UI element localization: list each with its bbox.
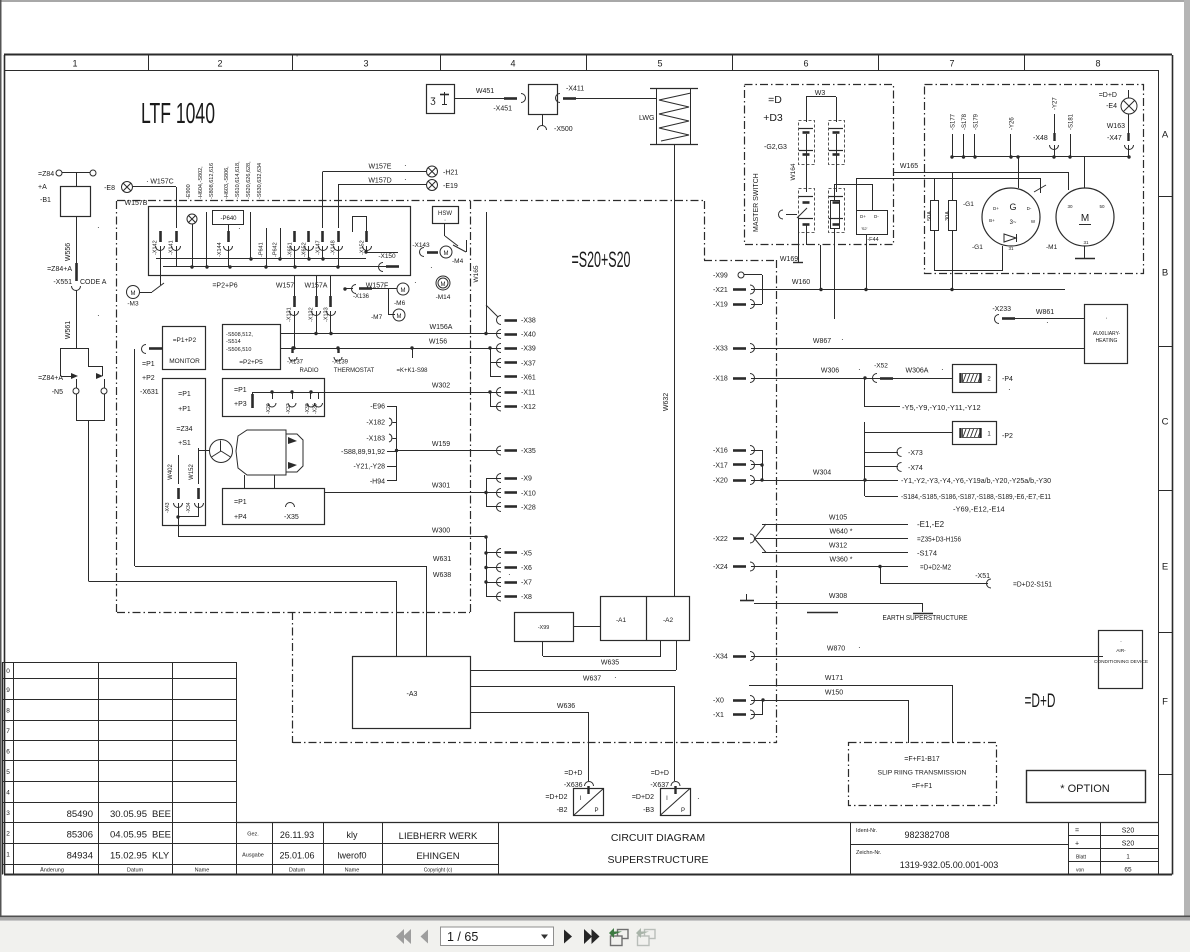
- svg-text:D-: D-: [1027, 206, 1032, 211]
- svg-text:=D+D2-M2: =D+D2-M2: [920, 563, 951, 572]
- svg-text:-Y27: -Y27: [1053, 97, 1059, 110]
- svg-text:Datum: Datum: [289, 868, 306, 874]
- svg-text:=F+F1-B17: =F+F1-B17: [904, 756, 940, 763]
- svg-text:8: 8: [1095, 59, 1100, 69]
- svg-text:BEE: BEE: [152, 809, 171, 820]
- svg-text:CODE A: CODE A: [80, 279, 107, 286]
- svg-text:D+: D+: [993, 206, 999, 211]
- svg-text:-M7: -M7: [371, 314, 383, 321]
- svg-text:-S88,89,91,92: -S88,89,91,92: [341, 449, 385, 456]
- svg-text:-X551: -X551: [53, 279, 72, 286]
- svg-text:LIEBHERR WERK: LIEBHERR WERK: [399, 831, 478, 842]
- svg-text:-A3: -A3: [407, 691, 418, 698]
- svg-text:=D+D2: =D+D2: [545, 794, 567, 801]
- svg-text:-X148: -X148: [331, 240, 337, 255]
- svg-text:-X61: -X61: [521, 375, 536, 382]
- svg-text:-X500: -X500: [554, 126, 573, 133]
- svg-text:Ident-Nr.: Ident-Nr.: [856, 828, 878, 834]
- svg-text:CIRCUIT DIAGRAM: CIRCUIT DIAGRAM: [611, 832, 705, 844]
- svg-text:-X141: -X141: [169, 240, 175, 255]
- svg-text:W150: W150: [825, 690, 843, 697]
- svg-text:-X38: -X38: [305, 403, 311, 414]
- svg-text:50A: 50A: [927, 211, 933, 221]
- svg-text:von: von: [1076, 868, 1084, 874]
- svg-text:30A: 30A: [945, 211, 951, 221]
- svg-text:-X411: -X411: [566, 86, 584, 93]
- svg-text:W640 *: W640 *: [830, 529, 853, 536]
- svg-text:+D3: +D3: [763, 112, 783, 124]
- svg-text:-X74: -X74: [908, 465, 923, 472]
- svg-text:-E4: -E4: [1106, 103, 1117, 110]
- svg-text:W631: W631: [433, 556, 451, 563]
- svg-text:W867: W867: [813, 338, 831, 345]
- svg-text:-A1: -A1: [616, 617, 627, 624]
- svg-text:9: 9: [6, 687, 10, 694]
- svg-text:AUXILIARY-: AUXILIARY-: [1093, 331, 1121, 337]
- svg-text:4: 4: [510, 59, 515, 69]
- svg-text:F: F: [1162, 697, 1168, 708]
- svg-text:=S20+S20: =S20+S20: [572, 247, 631, 272]
- svg-text:EARTH SUPERSTRUCTURE: EARTH SUPERSTRUCTURE: [883, 613, 968, 622]
- svg-text:+P1: +P1: [178, 406, 191, 413]
- svg-text:-B2: -B2: [557, 807, 568, 814]
- svg-text:-X47: -X47: [1107, 135, 1122, 142]
- svg-text:+S1: +S1: [178, 440, 191, 447]
- svg-text:-E96: -E96: [370, 404, 385, 411]
- svg-text:+P4: +P4: [234, 514, 247, 521]
- svg-text:W159: W159: [432, 441, 450, 448]
- svg-text:5: 5: [657, 59, 662, 69]
- svg-text:G: G: [1009, 202, 1016, 212]
- svg-text:-Y1,-Y2,-Y3,-Y4,-Y6,-Y19a/b,-Y: -Y1,-Y2,-Y3,-Y4,-Y6,-Y19a/b,-Y20,-Y25a/b…: [901, 476, 1051, 485]
- svg-text:-X11: -X11: [521, 390, 535, 397]
- svg-text:-X8: -X8: [521, 594, 532, 601]
- svg-text:-G1: -G1: [972, 244, 983, 251]
- svg-text:-X137: -X137: [287, 360, 304, 366]
- svg-text:W301: W301: [432, 483, 450, 490]
- svg-text:15.02.95: 15.02.95: [110, 851, 147, 862]
- svg-text:KLY: KLY: [152, 851, 170, 862]
- svg-text:-M3: -M3: [127, 301, 139, 308]
- svg-text:4: 4: [6, 789, 10, 796]
- svg-text:SLIP RIING TRANSMISSION: SLIP RIING TRANSMISSION: [878, 770, 967, 777]
- svg-text:7: 7: [949, 59, 954, 69]
- svg-text:·: ·: [414, 278, 417, 287]
- svg-text:-S184,-S185,-S186,-S187,-S188,: -S184,-S185,-S186,-S187,-S188,-S189,-E6,…: [901, 492, 1051, 501]
- svg-text:CONDITIONING DEVICE: CONDITIONING DEVICE: [1094, 659, 1148, 665]
- svg-text:W637: W637: [583, 676, 601, 683]
- svg-text:M: M: [441, 282, 446, 288]
- svg-text:P: P: [681, 808, 685, 814]
- svg-text:W861: W861: [1036, 309, 1054, 316]
- svg-text:-X20: -X20: [713, 478, 728, 485]
- svg-text:·: ·: [858, 365, 861, 374]
- svg-text:-X7: -X7: [521, 580, 532, 587]
- svg-text:=F+F1: =F+F1: [912, 783, 933, 790]
- svg-text:-X637: -X637: [650, 782, 669, 789]
- svg-text:Name: Name: [345, 868, 360, 874]
- svg-text:S20: S20: [1122, 828, 1135, 835]
- svg-text:=P2+P5: =P2+P5: [239, 359, 263, 366]
- svg-text:-P640: -P640: [220, 216, 237, 222]
- svg-text:* OPTION: * OPTION: [1060, 783, 1110, 795]
- svg-text:Gez.: Gez.: [247, 832, 259, 838]
- svg-text:W308: W308: [829, 593, 847, 600]
- svg-text:HEATING: HEATING: [1096, 338, 1118, 344]
- svg-text:=D+D: =D+D: [564, 770, 582, 777]
- svg-text:3: 3: [6, 810, 10, 817]
- svg-text:26.11.93: 26.11.93: [280, 830, 314, 840]
- svg-text:-X48: -X48: [1033, 135, 1048, 142]
- svg-text:·: ·: [941, 365, 944, 374]
- svg-text:=Z84+A: =Z84+A: [38, 375, 63, 382]
- svg-text:·: ·: [1120, 639, 1122, 645]
- svg-text:1319-932.05.00.001-003: 1319-932.05.00.001-003: [900, 860, 999, 870]
- svg-text:-X142: -X142: [153, 240, 159, 255]
- svg-text:W157: W157: [276, 283, 294, 290]
- svg-text:-X51: -X51: [975, 573, 990, 580]
- svg-text:-S181: -S181: [1069, 113, 1075, 130]
- svg-text:W157C: W157C: [150, 179, 173, 186]
- svg-text:-S179: -S179: [974, 113, 980, 130]
- svg-text:-F44: -F44: [867, 237, 878, 243]
- svg-text:-X39: -X39: [521, 346, 536, 353]
- svg-text:84934: 84934: [67, 851, 93, 862]
- svg-text:2: 2: [6, 831, 10, 838]
- svg-text:P: P: [594, 808, 598, 814]
- svg-text:-X451: -X451: [493, 106, 512, 113]
- svg-text:': ': [296, 55, 297, 62]
- svg-text:=D+D2-S151: =D+D2-S151: [1013, 580, 1052, 589]
- svg-text:1 / 65: 1 / 65: [447, 930, 478, 944]
- svg-text:-H21: -H21: [443, 170, 458, 177]
- svg-text:W312: W312: [829, 543, 847, 550]
- svg-text:-S514: -S514: [226, 339, 241, 345]
- svg-text:W300: W300: [432, 528, 450, 535]
- svg-text:-X34: -X34: [713, 654, 728, 661]
- svg-text:-P4: -P4: [1002, 376, 1013, 383]
- svg-text:W402: W402: [168, 464, 174, 480]
- svg-text:'S2': 'S2': [861, 226, 868, 231]
- svg-text:-Y26: -Y26: [1010, 117, 1016, 130]
- svg-text:-X12: -X12: [521, 404, 536, 411]
- svg-text:-X182: -X182: [366, 420, 385, 427]
- svg-text:-X19: -X19: [713, 302, 728, 309]
- svg-text:W156A: W156A: [430, 324, 453, 331]
- svg-text:S20: S20: [1122, 841, 1135, 848]
- svg-text:-E19: -E19: [443, 183, 458, 190]
- svg-text:W164: W164: [790, 163, 797, 180]
- svg-text:-X99: -X99: [538, 625, 550, 631]
- svg-text:-X34: -X34: [186, 502, 192, 513]
- svg-text:W556: W556: [65, 243, 72, 261]
- svg-text:W302: W302: [432, 383, 450, 390]
- svg-text:31: 31: [1083, 240, 1089, 245]
- svg-text:8: 8: [6, 707, 10, 714]
- svg-text:C: C: [1162, 417, 1169, 428]
- svg-text:85490: 85490: [67, 809, 93, 820]
- svg-text:25.01.06: 25.01.06: [279, 851, 314, 861]
- svg-text:·: ·: [697, 794, 700, 803]
- svg-text:6: 6: [803, 59, 808, 69]
- svg-text:-X139: -X139: [332, 360, 349, 366]
- svg-text:W171: W171: [825, 675, 843, 682]
- svg-text:2: 2: [217, 59, 222, 69]
- svg-text:-P642: -P642: [273, 242, 279, 257]
- svg-text:-X99: -X99: [713, 273, 728, 280]
- svg-text:-X28: -X28: [521, 505, 536, 512]
- svg-text:W306: W306: [821, 368, 839, 375]
- svg-text:-Y21,-Y28: -Y21,-Y28: [353, 464, 385, 471]
- svg-text:+A: +A: [38, 184, 47, 191]
- svg-text:-X1: -X1: [713, 712, 724, 719]
- svg-text:W638: W638: [433, 572, 451, 579]
- svg-text:-S620,626,628,: -S620,626,628,: [246, 161, 252, 199]
- svg-text:-S808,612,616: -S808,612,616: [209, 163, 215, 199]
- svg-text:=P1: =P1: [234, 387, 247, 394]
- svg-text:-X631: -X631: [140, 389, 159, 396]
- svg-text:-H604,-S802,: -H604,-S802,: [198, 166, 204, 199]
- svg-text:-E8: -E8: [104, 185, 115, 192]
- svg-text:=P1: =P1: [178, 391, 191, 398]
- svg-text:SUPERSTRUCTURE: SUPERSTRUCTURE: [608, 854, 709, 866]
- svg-text:W157E: W157E: [369, 164, 392, 171]
- svg-text:·: ·: [1008, 385, 1011, 394]
- svg-text:Datum: Datum: [127, 868, 144, 874]
- svg-text:85306: 85306: [67, 830, 93, 841]
- svg-text:W306A: W306A: [906, 368, 929, 375]
- svg-text:-X150: -X150: [378, 253, 396, 260]
- svg-text:=Z35+D3-H156: =Z35+D3-H156: [917, 535, 961, 544]
- svg-text:D+: D+: [860, 214, 866, 219]
- svg-text:7: 7: [6, 728, 10, 735]
- svg-text:-G2,G3: -G2,G3: [764, 144, 787, 151]
- svg-text:=P1: =P1: [142, 361, 155, 368]
- svg-text:LWG: LWG: [639, 115, 654, 122]
- svg-text:-X133: -X133: [324, 307, 330, 322]
- svg-text:-X136: -X136: [353, 294, 370, 300]
- svg-text:kly: kly: [347, 830, 358, 840]
- svg-text:-X24: -X24: [713, 564, 728, 571]
- svg-text:-E900: -E900: [186, 184, 192, 199]
- svg-text:W360 *: W360 *: [830, 557, 853, 564]
- svg-text:04.05.95: 04.05.95: [110, 830, 147, 841]
- svg-text:-X636: -X636: [564, 782, 583, 789]
- svg-text:AIR-: AIR-: [1116, 648, 1126, 654]
- svg-text:=P1: =P1: [234, 499, 247, 506]
- svg-text:·: ·: [430, 263, 433, 272]
- svg-text:Copyright (c): Copyright (c): [424, 868, 453, 874]
- svg-text:-Y69,-E12,-E14: -Y69,-E12,-E14: [953, 505, 1005, 514]
- svg-text:BEE: BEE: [152, 830, 171, 841]
- svg-text:=D+D: =D+D: [651, 770, 669, 777]
- svg-text:=D+D: =D+D: [1025, 691, 1056, 712]
- svg-text:RADIO: RADIO: [299, 368, 318, 374]
- svg-text:65: 65: [1124, 867, 1132, 874]
- svg-text:6: 6: [6, 748, 10, 755]
- svg-text:=D: =D: [768, 94, 782, 106]
- svg-text:-S610,614,618,: -S610,614,618,: [235, 161, 241, 199]
- svg-text:-M1: -M1: [1046, 244, 1058, 251]
- svg-text:30: 30: [1067, 204, 1073, 209]
- svg-text:·: ·: [404, 175, 407, 184]
- svg-text:W156: W156: [429, 339, 447, 346]
- svg-text:-X37: -X37: [521, 361, 536, 368]
- svg-text:30.05.95: 30.05.95: [110, 809, 147, 820]
- svg-text:W3: W3: [815, 90, 826, 97]
- svg-text:=K+K1-S98: =K+K1-S98: [396, 368, 428, 374]
- svg-text:-S174: -S174: [917, 549, 937, 558]
- svg-text:M: M: [444, 251, 449, 257]
- svg-text:-X26: -X26: [266, 403, 272, 414]
- svg-text:-P2: -P2: [1002, 433, 1013, 440]
- svg-text:W157B: W157B: [125, 200, 148, 207]
- svg-text:B+: B+: [989, 218, 995, 223]
- svg-text:Blatt: Blatt: [1076, 855, 1087, 861]
- svg-text:5: 5: [6, 769, 10, 776]
- svg-text:W163: W163: [1107, 123, 1125, 130]
- svg-text:+P2: +P2: [142, 375, 155, 382]
- svg-text:-X22: -X22: [713, 536, 728, 543]
- svg-text:-X21: -X21: [713, 287, 728, 294]
- svg-text:·: ·: [97, 311, 100, 320]
- svg-text:=Z84+A: =Z84+A: [47, 266, 72, 273]
- svg-text:-P641: -P641: [259, 242, 265, 257]
- svg-text:-X52: -X52: [874, 363, 888, 370]
- svg-text:Zeichn-Nr.: Zeichn-Nr.: [856, 850, 882, 856]
- svg-text:-X18: -X18: [713, 376, 728, 383]
- svg-text:=: =: [1075, 828, 1079, 835]
- svg-text:-X35: -X35: [284, 514, 299, 521]
- svg-text:·: ·: [146, 177, 149, 186]
- svg-text:lwerof0: lwerof0: [337, 851, 366, 861]
- svg-text:-H603,-S806,: -H603,-S806,: [224, 166, 230, 199]
- svg-text:-S178: -S178: [962, 113, 968, 130]
- svg-text:+P3: +P3: [234, 401, 247, 408]
- svg-text:·: ·: [97, 223, 100, 232]
- svg-text:·: ·: [1105, 315, 1107, 322]
- svg-text:-X0: -X0: [713, 698, 724, 705]
- svg-text:-M6: -M6: [394, 300, 406, 307]
- svg-text:1: 1: [6, 851, 10, 858]
- svg-text:-E1,-E2: -E1,-E2: [917, 520, 945, 529]
- svg-text:·: ·: [444, 217, 446, 224]
- svg-text:W632: W632: [663, 393, 670, 411]
- svg-text:3: 3: [363, 59, 368, 69]
- svg-text:-X10: -X10: [521, 491, 536, 498]
- svg-text:A: A: [1162, 130, 1169, 141]
- svg-text:-X6: -X6: [521, 565, 532, 572]
- svg-text:1: 1: [72, 59, 77, 69]
- svg-text:-X147: -X147: [316, 240, 322, 255]
- svg-text:-X73: -X73: [908, 450, 923, 457]
- svg-text:-X9: -X9: [521, 476, 532, 483]
- svg-text:=Z84: =Z84: [38, 171, 54, 178]
- svg-text:+: +: [1075, 841, 1079, 848]
- svg-text:-X652: -X652: [302, 242, 308, 257]
- svg-text:·: ·: [404, 161, 407, 170]
- svg-text:EHINGEN: EHINGEN: [416, 851, 459, 862]
- svg-text:0: 0: [6, 668, 10, 675]
- svg-text:=D+D: =D+D: [1099, 92, 1117, 99]
- svg-text:-X651: -X651: [288, 242, 294, 257]
- svg-text:-X35: -X35: [521, 448, 536, 455]
- svg-text:-S506,510: -S506,510: [226, 347, 251, 353]
- svg-text:Ausgabe: Ausgabe: [242, 853, 264, 859]
- svg-text:M: M: [401, 288, 406, 294]
- svg-text:-H94: -H94: [370, 479, 385, 486]
- svg-text:W152: W152: [189, 464, 195, 480]
- svg-text:-Y5,-Y9,-Y10,-Y11,-Y12: -Y5,-Y9,-Y10,-Y11,-Y12: [902, 403, 981, 412]
- svg-text:W451: W451: [476, 88, 494, 95]
- svg-text:-X131: -X131: [287, 307, 293, 322]
- svg-text:W304: W304: [813, 470, 831, 477]
- svg-text:·: ·: [508, 570, 511, 579]
- svg-text:·: ·: [858, 643, 861, 652]
- svg-text:W105: W105: [829, 515, 847, 522]
- svg-text:·: ·: [614, 673, 617, 682]
- svg-text:B: B: [1162, 268, 1168, 279]
- svg-text:-G1: -G1: [963, 201, 974, 208]
- svg-text:-X38: -X38: [521, 318, 536, 325]
- svg-text:-S177: -S177: [951, 113, 957, 130]
- svg-text:W561: W561: [65, 321, 72, 339]
- svg-text:-X43: -X43: [165, 502, 171, 513]
- svg-text:·: ·: [1046, 318, 1049, 327]
- svg-text:MONITOR: MONITOR: [169, 358, 200, 365]
- svg-text:-B1: -B1: [40, 197, 51, 204]
- svg-text:-X5: -X5: [521, 551, 532, 558]
- svg-text:·: ·: [841, 335, 844, 344]
- svg-text:-X233: -X233: [992, 306, 1011, 313]
- svg-text:D-: D-: [874, 214, 879, 219]
- svg-text:·: ·: [238, 224, 241, 233]
- svg-text:Änderung: Änderung: [40, 867, 64, 874]
- svg-text:E: E: [1162, 562, 1168, 573]
- svg-text:-X17: -X17: [713, 463, 728, 470]
- svg-text:W165: W165: [473, 265, 480, 282]
- svg-text:-X132: -X132: [309, 307, 315, 322]
- svg-text:M: M: [131, 291, 136, 297]
- svg-text:-X36: -X36: [313, 403, 319, 414]
- svg-text:=Z34: =Z34: [176, 426, 192, 433]
- svg-text:THERMOSTAT: THERMOSTAT: [334, 368, 375, 374]
- svg-text:ʒ: ʒ: [430, 95, 436, 106]
- svg-text:-M14: -M14: [436, 294, 451, 301]
- svg-text:-X40: -X40: [521, 332, 536, 339]
- svg-text:982382708: 982382708: [904, 830, 949, 840]
- svg-text:=P1+P2: =P1+P2: [173, 337, 197, 344]
- svg-text:W160: W160: [792, 279, 810, 286]
- svg-text:W870: W870: [827, 646, 845, 653]
- svg-text:-X37: -X37: [286, 403, 292, 414]
- svg-text:-S508,512,: -S508,512,: [226, 332, 253, 338]
- svg-text:-N5: -N5: [52, 389, 63, 396]
- svg-text:-M4: -M4: [452, 258, 464, 265]
- svg-text:Name: Name: [195, 868, 210, 874]
- svg-text:W635: W635: [601, 660, 619, 667]
- svg-text:-X16: -X16: [713, 448, 728, 455]
- svg-text:M: M: [397, 314, 402, 320]
- svg-text:W165: W165: [900, 163, 918, 170]
- svg-text:50: 50: [1099, 204, 1105, 209]
- svg-text:31: 31: [1008, 246, 1014, 251]
- svg-text:=P2+P6: =P2+P6: [212, 283, 237, 290]
- svg-text:-X33: -X33: [713, 346, 728, 353]
- svg-text:-X144: -X144: [217, 242, 223, 257]
- svg-text:LTF 1040: LTF 1040: [141, 98, 215, 130]
- svg-text:W636: W636: [557, 703, 575, 710]
